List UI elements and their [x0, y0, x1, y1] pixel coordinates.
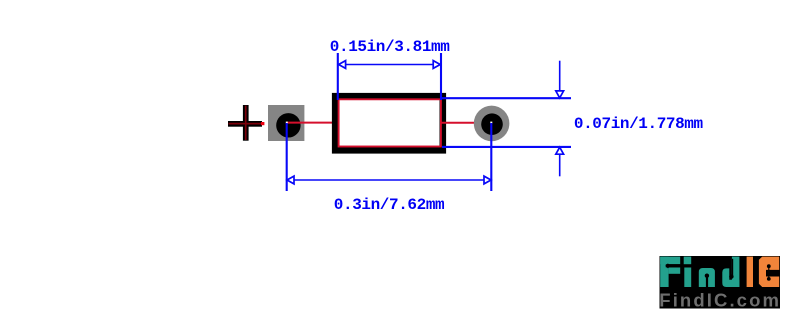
component body outline (black) — [335, 96, 443, 150]
dimension: top width 0.15in extension lines — [338, 53, 441, 100]
dimension: bottom pitch 0.3in extension lines — [287, 123, 492, 191]
arrowhead left of top dimension — [339, 61, 346, 69]
pad 1 (square pad) — [268, 105, 304, 141]
dimension: top width 0.15in dimension line — [338, 64, 441, 66]
arrowhead right of top dimension — [433, 61, 440, 69]
dimension: right height 0.07in extension lines — [440, 98, 571, 147]
arrowhead up of right dimension — [556, 147, 564, 154]
arrowhead left of bottom dimension — [287, 176, 294, 184]
arrowhead right of bottom dimension — [484, 176, 491, 184]
wire: red lead line body to pad 2 — [441, 122, 492, 124]
dimension: right height 0.07in arrow lines — [559, 61, 561, 177]
FindIC logo — [659, 256, 781, 310]
logo background — [660, 256, 781, 309]
pad 2 (round pad) — [474, 106, 510, 142]
dimension: bottom pitch 0.3in dimension line — [287, 179, 492, 181]
origin cross marker — [228, 105, 264, 141]
letter n — [699, 268, 715, 287]
wire: red lead line pad1 to body — [287, 122, 339, 124]
letter F — [660, 257, 680, 287]
node: pad centers white dots — [286, 122, 288, 124]
svg-text:0.15in/3.81mm: 0.15in/3.81mm — [330, 38, 450, 56]
svg-text:0.3in/7.62mm: 0.3in/7.62mm — [334, 196, 445, 214]
svg-text:FindIC.com: FindIC.com — [659, 289, 781, 310]
letter C — [759, 257, 779, 287]
letter d — [722, 257, 739, 287]
letter i — [684, 257, 692, 287]
component body silkscreen (red) — [339, 99, 441, 146]
letter I — [747, 257, 753, 287]
arrowhead down of right dimension — [556, 91, 564, 98]
svg-text:0.07in/1.778mm: 0.07in/1.778mm — [574, 115, 704, 133]
